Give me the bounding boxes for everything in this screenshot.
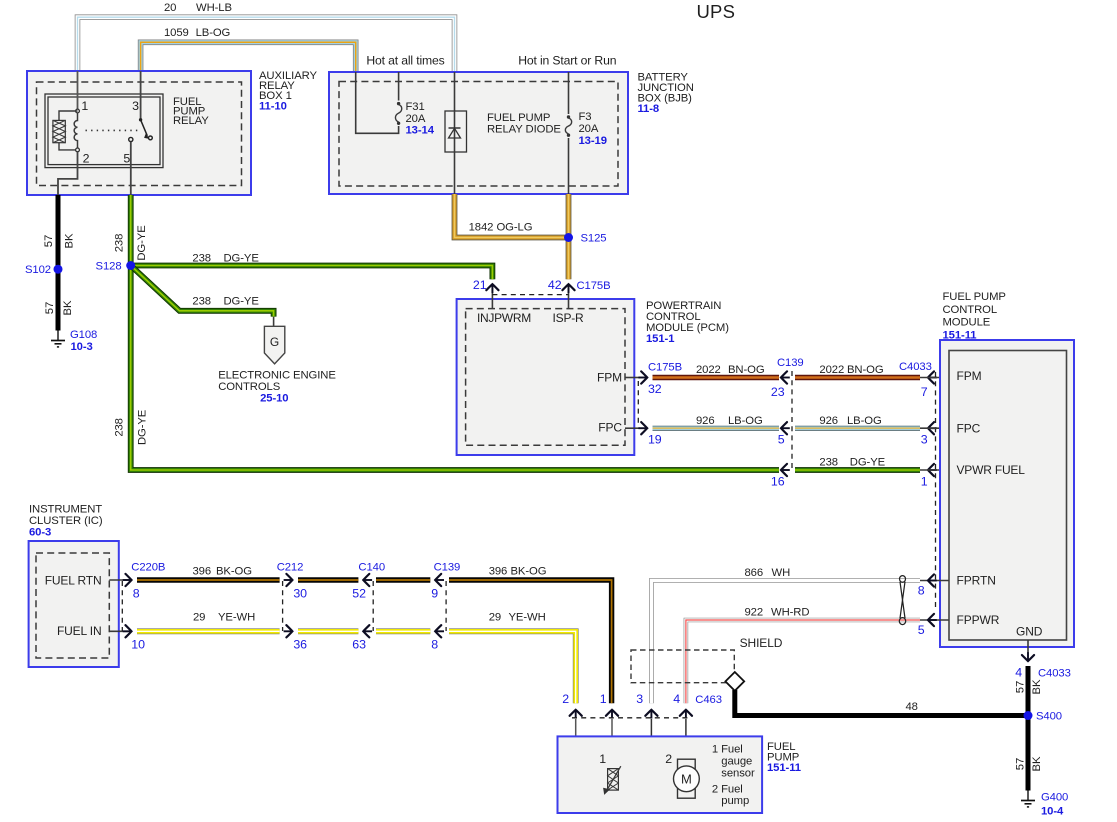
wire 922 WH-RD (686, 620, 920, 703)
fuse F31 feed lead (398, 72, 400, 101)
arrow into FPCM VPWR (928, 464, 934, 476)
wire 866 WH (651, 581, 920, 704)
wire 238 DG-YE relay pin 5 down and across bottom (131, 195, 779, 470)
twisted pair symbol (900, 576, 906, 583)
svg-text:16: 16 (771, 475, 785, 489)
svg-text:3: 3 (636, 692, 643, 706)
instrument cluster box (29, 541, 119, 667)
svg-text:FUEL PUMP: FUEL PUMP (943, 291, 1006, 303)
svg-text:42: 42 (548, 278, 562, 292)
svg-text:238: 238 (819, 457, 838, 469)
svg-text:FPRTN: FPRTN (957, 574, 996, 588)
svg-text:866: 866 (745, 567, 764, 579)
svg-text:20A: 20A (406, 113, 426, 125)
pcm FPM pin stub (625, 377, 640, 379)
wire 2022 BN-OG segment 2 (795, 375, 920, 380)
connector C463 dashed link (572, 717, 690, 719)
svg-text:GND: GND (1016, 625, 1043, 639)
splice S102 (54, 265, 63, 274)
connector C139 dashed link pcm (791, 371, 793, 470)
svg-text:F3: F3 (579, 111, 592, 123)
splice S125 (564, 233, 573, 242)
relay pin 2 lead to box exit (58, 152, 78, 195)
fuel pump motor (674, 766, 700, 792)
wire 20 WH-LB (relay pin 1 to BJB diode) (78, 17, 455, 72)
svg-text:5: 5 (918, 623, 925, 637)
svg-text:G108: G108 (70, 329, 97, 341)
svg-text:23: 23 (771, 385, 785, 399)
connector C139 dashed link ic (445, 581, 447, 631)
fuel pump relay case (45, 94, 163, 168)
relay pin 5 contact (129, 137, 133, 141)
fuel pump control module inner box (949, 351, 1067, 641)
svg-text:238: 238 (113, 418, 125, 437)
svg-text:57: 57 (1015, 681, 1027, 693)
arrow into FPCM FPM (928, 371, 934, 383)
arrow into pcm pin 21 (486, 284, 498, 290)
wire 1059 internal path to F31 (356, 72, 399, 133)
svg-text:1: 1 (600, 692, 607, 706)
ic FUEL IN pin stub (109, 630, 128, 632)
svg-text:C212: C212 (277, 562, 304, 574)
svg-text:5: 5 (123, 152, 130, 166)
svg-text:4: 4 (1015, 666, 1022, 680)
svg-text:WH-RD: WH-RD (771, 607, 809, 619)
svg-text:36: 36 (293, 638, 307, 652)
svg-text:YE-WH: YE-WH (509, 612, 546, 624)
relay switch lever contact (149, 136, 153, 140)
wire 396 BK-OG segment 2 (298, 577, 358, 582)
arrow out of C212 fuel rtn (286, 574, 292, 586)
svg-text:C220B: C220B (131, 562, 165, 574)
svg-text:1842: 1842 (469, 222, 494, 234)
svg-text:10-4: 10-4 (1041, 806, 1064, 818)
svg-text:396: 396 (193, 566, 212, 578)
svg-text:52: 52 (352, 586, 366, 600)
fpcm GND lead (1027, 640, 1029, 653)
fuel pump lead pin2 (576, 719, 613, 797)
wire 48 BK shield drain to S400 (735, 690, 1028, 716)
connector C212 dashed link (282, 581, 284, 631)
svg-text:M: M (681, 772, 692, 787)
fuel pump control module box (940, 340, 1074, 647)
arrow out of pcm FPM (641, 371, 647, 383)
arrow into C139 fuel rtn (435, 574, 441, 586)
svg-text:G: G (270, 335, 279, 349)
svg-text:INSTRUMENT: INSTRUMENT (29, 503, 102, 515)
svg-text:INJPWRM: INJPWRM (477, 311, 531, 325)
relay actuation dotted link (86, 129, 139, 131)
svg-text:WH: WH (772, 567, 791, 579)
svg-text:BK-OG: BK-OG (511, 566, 547, 578)
svg-text:Hot in Start or Run: Hot in Start or Run (518, 53, 616, 67)
svg-text:BK: BK (1031, 679, 1043, 694)
svg-text:30: 30 (293, 586, 307, 600)
wire 926 LB-OG segment 1 (653, 426, 780, 431)
svg-text:151-1: 151-1 (646, 333, 674, 345)
relay switch lever (141, 120, 148, 136)
fuel pump relay diode box (445, 111, 467, 152)
wire 396 BK-OG segment 4 (449, 580, 612, 703)
fuel gauge sensor element (608, 769, 619, 791)
wire 238 DG-YE branch to PCM pin 21 (131, 266, 493, 280)
svg-text:BK: BK (1031, 756, 1043, 771)
wire 57 BK relay pin 2 to ground (56, 195, 61, 331)
auxiliary relay box 1 dashed outline (37, 82, 242, 186)
svg-text:8: 8 (133, 586, 140, 600)
svg-text:DG-YE: DG-YE (850, 457, 886, 469)
svg-text:238: 238 (192, 252, 211, 264)
svg-text:13-14: 13-14 (406, 125, 435, 137)
svg-text:1059: 1059 (164, 27, 189, 39)
svg-text:21: 21 (473, 278, 487, 292)
svg-text:20: 20 (164, 2, 176, 14)
svg-text:MODULE: MODULE (943, 317, 991, 329)
svg-text:FUEL PUMP: FUEL PUMP (487, 112, 550, 124)
svg-text:CONTROL: CONTROL (943, 304, 998, 316)
svg-text:ISP-R: ISP-R (553, 311, 585, 325)
svg-text:238: 238 (113, 234, 125, 253)
electronic engine controls lead (273, 317, 275, 327)
svg-text:OG-LG: OG-LG (497, 222, 533, 234)
svg-text:3: 3 (921, 432, 928, 446)
arrow into FPCM FPRTN (928, 574, 934, 586)
wire 1059 LB-OG (relay pin 3 to BJB F31) (141, 42, 356, 72)
svg-text:DG-YE: DG-YE (136, 225, 148, 261)
splice S400 (1024, 711, 1033, 720)
svg-text:BK: BK (64, 233, 76, 248)
wire 29 YE-WH segment 1 (137, 628, 280, 634)
svg-text:DG-YE: DG-YE (224, 252, 260, 264)
svg-text:UPS: UPS (697, 1, 736, 22)
arrow out of pcm FPC (641, 422, 647, 434)
svg-text:20A: 20A (579, 123, 599, 135)
connector C220B dashed link (121, 581, 123, 631)
auxiliary relay box 1 outline (27, 71, 251, 195)
arrow into C139 FPC (781, 422, 787, 434)
svg-text:C4033: C4033 (1038, 668, 1071, 680)
relay pin 3 lead (140, 71, 142, 120)
svg-text:151-11: 151-11 (767, 762, 801, 774)
fuel pump box (558, 736, 763, 813)
svg-text:25-10: 25-10 (260, 393, 288, 405)
relay pin 1 lead (77, 71, 79, 110)
svg-text:ELECTRONIC ENGINE: ELECTRONIC ENGINE (218, 369, 336, 381)
svg-text:S125: S125 (581, 233, 607, 245)
svg-text:2: 2 (562, 692, 569, 706)
arrow into C140 fuel rtn (363, 574, 369, 586)
svg-text:63: 63 (352, 638, 366, 652)
svg-text:922: 922 (745, 607, 764, 619)
fpcm FPM pin stub (920, 377, 949, 379)
svg-text:2022: 2022 (696, 364, 721, 376)
svg-text:8: 8 (431, 638, 438, 652)
fpcm FPPWR pin stub (920, 619, 949, 621)
fuel pump relay diode feed lead (454, 72, 456, 111)
fuse F31 (397, 102, 400, 105)
relay pin 2 terminal (76, 148, 80, 152)
svg-text:C175B: C175B (577, 280, 611, 292)
svg-text:FPPWR: FPPWR (957, 613, 1000, 627)
svg-text:3: 3 (132, 99, 139, 113)
svg-text:2022: 2022 (819, 364, 844, 376)
fpcm FPC pin stub (920, 427, 949, 429)
relay switch pivot (139, 118, 142, 121)
instrument cluster dashed outline (36, 553, 109, 658)
arrow into C463 pin 3 (645, 710, 657, 716)
svg-text:YE-WH: YE-WH (218, 612, 255, 624)
svg-text:LB-OG: LB-OG (728, 415, 763, 427)
arrow into C140 fuel in (363, 625, 369, 637)
svg-text:S128: S128 (96, 261, 122, 273)
fuel pump motor housing (678, 759, 696, 798)
svg-text:396: 396 (489, 566, 508, 578)
wire 29 YE-WH segment 2 (298, 628, 358, 634)
svg-text:LB-OG: LB-OG (196, 27, 231, 39)
arrow into C463 pin 2 (570, 710, 582, 716)
svg-text:C175B: C175B (648, 362, 682, 374)
wire 396 BK-OG segment 3 (376, 577, 430, 582)
svg-text:FPC: FPC (598, 421, 622, 435)
powertrain control module box (457, 299, 635, 455)
fuse F3 feed lead (568, 72, 570, 114)
arrow into pcm pin 42 (562, 284, 574, 290)
svg-text:9: 9 (431, 586, 438, 600)
arrow into C139 FPM (781, 371, 787, 383)
svg-text:5: 5 (778, 432, 785, 446)
fuel pump relay diode lead (454, 111, 456, 194)
svg-text:BK: BK (62, 300, 74, 315)
svg-text:57: 57 (44, 302, 56, 314)
svg-text:RELAY: RELAY (173, 115, 209, 127)
svg-text:29: 29 (489, 612, 501, 624)
powertrain control module dashed outline (466, 309, 625, 446)
svg-text:19: 19 (648, 432, 662, 446)
svg-text:1: 1 (921, 475, 928, 489)
battery junction box dashed outline (339, 82, 618, 187)
svg-text:F31: F31 (406, 101, 425, 113)
svg-text:gauge: gauge (721, 755, 752, 767)
ground G108 (57, 331, 59, 341)
svg-text:10-3: 10-3 (71, 341, 93, 353)
svg-text:926: 926 (819, 415, 838, 427)
svg-text:S400: S400 (1036, 711, 1062, 723)
wire 57 BK fpcm to ground (1026, 666, 1031, 791)
svg-text:BN-OG: BN-OG (847, 364, 884, 376)
wire 1842 OG-LG from F3 to PCM (566, 194, 572, 279)
pcm pin 21 lead (491, 284, 493, 309)
fpcm VPWR pin stub (920, 469, 949, 471)
arrow into C463 pin 4 (680, 710, 692, 716)
svg-text:7: 7 (921, 385, 928, 399)
arrow into C463 pin 1 (606, 710, 618, 716)
svg-text:CLUSTER (IC): CLUSTER (IC) (29, 515, 103, 527)
svg-text:29: 29 (193, 612, 205, 624)
arrow into C139 fuel in (435, 625, 441, 637)
svg-text:57: 57 (1015, 758, 1027, 770)
svg-text:DG-YE: DG-YE (137, 409, 149, 445)
svg-text:Hot at all times: Hot at all times (366, 53, 444, 67)
svg-text:RELAY DIODE: RELAY DIODE (487, 124, 561, 136)
fuel pump lead pin3 (651, 719, 686, 804)
svg-text:60-3: 60-3 (29, 526, 51, 538)
shield drain diamond (725, 672, 744, 691)
svg-text:FUEL RTN: FUEL RTN (45, 573, 102, 587)
fuel gauge sensor arrow (606, 766, 621, 792)
arrow out of C212 fuel in (286, 625, 292, 637)
svg-text:G400: G400 (1041, 792, 1068, 804)
svg-text:57: 57 (43, 235, 55, 247)
svg-text:C139: C139 (777, 357, 804, 369)
svg-text:2: 2 (665, 752, 672, 766)
wire 238 DG-YE branch to electronic engine controls (131, 266, 274, 317)
relay coil (74, 113, 77, 148)
connector C175B dashed link right (637, 381, 639, 425)
wire 396 BK-OG segment 1 (137, 577, 280, 582)
svg-text:C139: C139 (434, 562, 461, 574)
svg-text:C140: C140 (358, 562, 385, 574)
arrow out of fpcm GND (1022, 655, 1034, 661)
svg-text:151-11: 151-11 (943, 329, 977, 341)
wire 2022 BN-OG segment 1 (653, 375, 780, 380)
fuel pump lead pin4 (685, 719, 687, 759)
wire 1842 OG-LG from diode (455, 194, 567, 238)
svg-text:32: 32 (648, 382, 662, 396)
wire 29 YE-WH segment 4 (449, 631, 576, 703)
svg-text:11-10: 11-10 (259, 100, 287, 112)
arrow out of ic FUEL IN (126, 625, 132, 637)
relay pin 1 terminal (76, 109, 80, 113)
svg-text:FUEL IN: FUEL IN (57, 624, 102, 638)
arrow into C139 VPWR (781, 464, 787, 476)
shield dashed outline (631, 650, 734, 683)
svg-text:sensor: sensor (721, 768, 755, 780)
fpcm FPRTN pin stub (920, 580, 949, 582)
svg-text:FPC: FPC (957, 422, 981, 436)
svg-text:BK-OG: BK-OG (216, 566, 252, 578)
svg-text:48: 48 (906, 701, 918, 713)
svg-text:926: 926 (696, 415, 715, 427)
svg-text:CONTROLS: CONTROLS (218, 381, 281, 393)
connector C4033 dashed link (935, 372, 937, 611)
svg-text:LB-OG: LB-OG (847, 415, 882, 427)
svg-text:DG-YE: DG-YE (224, 296, 260, 308)
wire 926 LB-OG segment 2 (795, 426, 920, 431)
svg-text:S102: S102 (25, 264, 51, 276)
battery junction box outline (329, 72, 628, 194)
svg-text:4: 4 (673, 692, 680, 706)
electronic engine controls G symbol (264, 326, 284, 364)
connector C175B dashed link top (492, 294, 568, 296)
connector C140 dashed link (372, 581, 374, 631)
fuel pump relay diode symbol (449, 128, 461, 138)
svg-text:1: 1 (599, 752, 606, 766)
svg-text:10: 10 (131, 638, 145, 652)
svg-text:13-19: 13-19 (579, 135, 607, 147)
svg-text:2: 2 (83, 152, 90, 166)
pcm FPC pin stub (625, 427, 640, 429)
svg-text:FPM: FPM (597, 371, 622, 385)
svg-text:VPWR FUEL: VPWR FUEL (957, 463, 1026, 477)
svg-text:238: 238 (192, 296, 211, 308)
svg-text:2 Fuel: 2 Fuel (712, 784, 743, 796)
pcm pin 42 lead (568, 284, 570, 309)
fuel pump lead pin1 (611, 719, 613, 769)
fuse F3 (567, 115, 570, 118)
relay resistor element (53, 120, 65, 142)
svg-text:FPM: FPM (957, 369, 982, 383)
relay pin 5 lead (130, 142, 132, 195)
svg-text:C4033: C4033 (899, 361, 932, 373)
svg-text:SHIELD: SHIELD (740, 636, 783, 650)
relay coil wire to resistor element (59, 111, 78, 150)
svg-text:11-8: 11-8 (638, 103, 660, 115)
svg-text:1 Fuel: 1 Fuel (712, 743, 743, 755)
arrow into FPCM FPPWR (928, 614, 934, 626)
wire 29 YE-WH segment 3 (376, 628, 430, 634)
svg-text:C463: C463 (695, 694, 722, 706)
svg-text:WH-LB: WH-LB (196, 2, 232, 14)
splice S128 (126, 261, 135, 270)
arrow out of ic FUEL RTN (126, 574, 132, 586)
fuse F3 output lead (568, 138, 570, 194)
wire 238 DG-YE segment 2 (795, 467, 920, 473)
ground G400 (1027, 791, 1029, 801)
svg-text:8: 8 (918, 584, 925, 598)
svg-text:BN-OG: BN-OG (728, 364, 765, 376)
svg-text:1: 1 (81, 99, 88, 113)
ic FUEL RTN pin stub (109, 579, 128, 581)
arrow into FPCM FPC (928, 422, 934, 434)
svg-text:pump: pump (721, 795, 749, 807)
